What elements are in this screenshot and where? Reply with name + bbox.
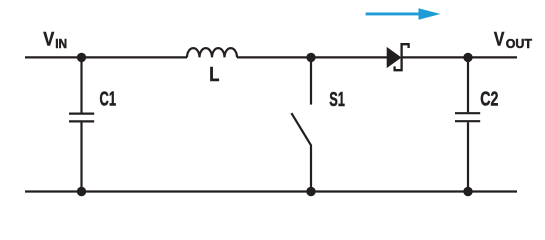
svg-text:V: V	[43, 29, 54, 50]
svg-text:OUT: OUT	[506, 36, 532, 51]
svg-text:C1: C1	[100, 88, 117, 110]
svg-text:L: L	[209, 64, 219, 86]
svg-text:IN: IN	[55, 36, 67, 51]
svg-text:C2: C2	[480, 88, 498, 110]
svg-text:V: V	[494, 30, 505, 51]
svg-text:S1: S1	[329, 89, 345, 111]
